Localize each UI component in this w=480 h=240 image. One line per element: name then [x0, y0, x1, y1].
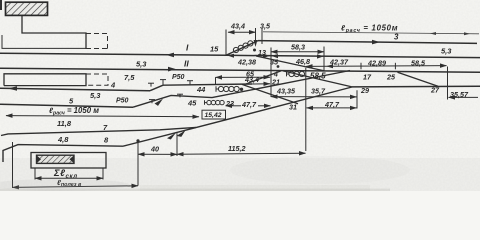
- platform step outline below building: [22, 16, 86, 50]
- dim 58,3: [271, 51, 324, 53]
- track II: [0, 68, 480, 72]
- vertical 262: [261, 28, 263, 44]
- dim tail 43,4: [252, 83, 270, 85]
- crossing diagonal B: [242, 84, 298, 103]
- dim 43,35 and 35,7: [271, 96, 357, 98]
- switch ticks: [148, 80, 193, 104]
- vertical 324: [323, 47, 325, 71]
- track 5 arrow: [155, 99, 164, 106]
- paper background: [0, 0, 480, 191]
- arrows on diagonal: [167, 133, 176, 140]
- sum l skl dim: [34, 169, 36, 180]
- dim 40: [138, 153, 177, 155]
- track 5: [0, 104, 133, 107]
- l rasch bottom dimension: [6, 116, 199, 117]
- l rasch top dimension line: [263, 32, 479, 34]
- track 3 direction arrow: [372, 40, 380, 45]
- rise 45: [133, 71, 350, 108]
- dim 42,38: [227, 54, 234, 58]
- warehouse hatched box: [37, 155, 75, 163]
- dashed platform extension top: [86, 34, 108, 49]
- vertical 255.5 with down arrow and dot: [255, 28, 257, 44]
- dim 43,4 top: [228, 31, 256, 33]
- signal row 45: [205, 100, 225, 105]
- signal row 44: [216, 86, 239, 91]
- track II direction arrow: [168, 67, 176, 72]
- signal circles on diagonal: [233, 41, 253, 53]
- vertical 447.5: [447, 67, 449, 100]
- vertical 226: [225, 30, 227, 56]
- diagonal from II to bottom track: [283, 71, 352, 87]
- track 4 rise: [150, 85, 163, 91]
- dim 115,2: [177, 153, 306, 154]
- vertical 357: [356, 90, 358, 108]
- siding track with bend: [3, 145, 123, 162]
- dim 35,57: [449, 96, 479, 98]
- warehouse outer rect: [31, 153, 106, 169]
- long vertical 305.8: [305, 68, 307, 151]
- bottom right track: [352, 85, 480, 88]
- station building (hatched): [6, 2, 48, 15]
- track 7: [1, 127, 196, 135]
- turnout diagonal track I to track 3: [226, 41, 258, 56]
- scan artifact top-left edge: [0, 0, 2, 10]
- vertical 271: [270, 48, 272, 98]
- platform between II and 4: [4, 74, 86, 86]
- dim 65 line: [216, 76, 271, 78]
- long diagonal to bottom track: [123, 87, 352, 146]
- box 15,42: [202, 110, 226, 119]
- track 44 line: [163, 84, 252, 85]
- dots and verticals for 40 dim: [136, 139, 139, 142]
- crossover I to II: [256, 56, 325, 71]
- track I: [0, 53, 226, 55]
- dim 42,37 42,89 58,5: [306, 65, 447, 68]
- platform I front edge: [2, 35, 86, 48]
- track 4 left: [0, 88, 150, 91]
- dim 47,7 left: [226, 105, 242, 107]
- paper grain overlay: [0, 0, 480, 191]
- rise from 44 to II: [245, 71, 281, 84]
- track 3: [258, 41, 477, 44]
- signal on track between II and 4: [287, 71, 305, 76]
- track I direction arrow: [166, 53, 174, 58]
- turnout 25 diagonal: [398, 72, 439, 86]
- track 4 arrow: [8, 86, 17, 91]
- l polez dim: [12, 142, 14, 188]
- dim 47,7 right: [307, 107, 357, 109]
